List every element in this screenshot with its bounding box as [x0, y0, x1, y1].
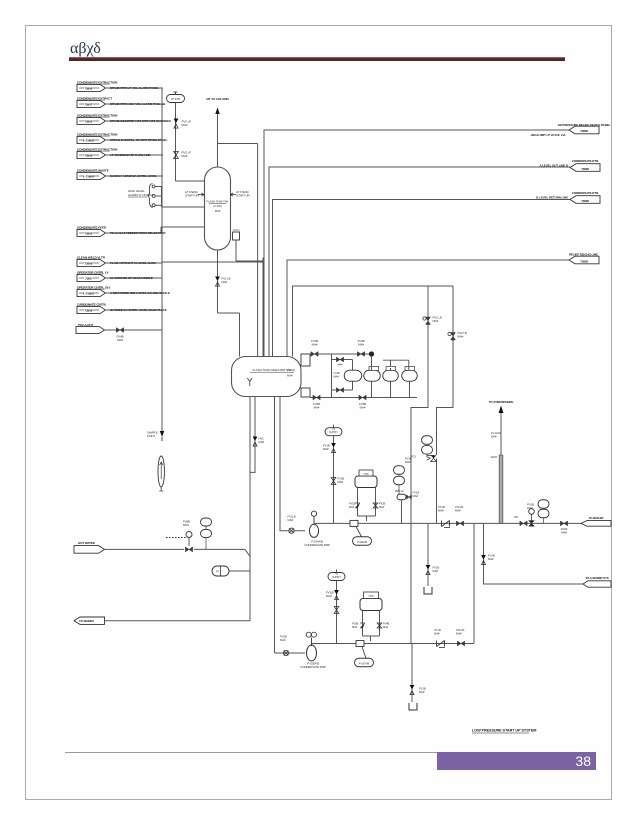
funnel drain lower [409, 703, 417, 710]
valve pump2 suction [283, 650, 288, 655]
svg-text:FV2B: FV2B [379, 501, 385, 505]
valve PV3LP [174, 152, 179, 156]
valve N2 upper 2 [331, 478, 336, 482]
svg-text:MT TO COLUMN: MT TO COLUMN [206, 97, 228, 101]
svg-text:MA#: MA# [338, 480, 344, 484]
valve FV2B [311, 352, 318, 357]
gate valve lower [457, 641, 464, 646]
svg-text:MA#: MA# [358, 342, 364, 346]
svg-text:TO BOILER: TO BOILER [589, 516, 605, 520]
svg-text:FLASH TANK TNK: FLASH TANK TNK [207, 200, 229, 204]
svg-text:HTR: HTR [369, 595, 374, 598]
svg-text:L-73808: L-73808 [83, 174, 94, 178]
trap pot T1 [364, 370, 381, 381]
wire from flag L2-1 [106, 262, 163, 264]
valve PV2LP [174, 119, 179, 129]
svg-text:OPERATOR CNTRL SLV: OPERATOR CNTRL SLV [77, 285, 111, 289]
wire pump2 suction [275, 652, 306, 654]
svg-text:MA#: MA# [438, 509, 444, 513]
gate valve header2 [520, 521, 527, 526]
wire hot water jog [245, 549, 250, 557]
valve vessel drain [215, 277, 220, 287]
svg-text:VENT: VENT [490, 455, 497, 459]
svg-text:MA#: MA# [287, 373, 293, 377]
wire manifold bottom rail [310, 397, 417, 399]
drum top nozzle wires [239, 356, 241, 358]
drum T-102 [232, 357, 302, 397]
svg-text:P-106A/B: P-106A/B [357, 540, 368, 544]
wire pump2 suction drop [274, 397, 276, 654]
svg-text:A DELIVERED RICH LEVEL GAUGE N: A DELIVERED RICH LEVEL GAUGE NOZZLE [110, 291, 170, 295]
wire from flag L1-2 [106, 103, 164, 105]
wire from flag L1-5 [106, 154, 164, 156]
wire header A [264, 130, 569, 357]
wire lower vessel nozzle [161, 226, 205, 228]
ball plug [369, 351, 374, 356]
drum right nozzle lower [301, 388, 310, 397]
wire header E [293, 286, 454, 357]
svg-text:LP CONDENSATE FLOW LINE: LP CONDENSATE FLOW LINE [110, 153, 151, 157]
inlet flag L1-6 [77, 172, 106, 179]
svg-text:MA#: MA# [182, 123, 188, 127]
svg-text:MA#: MA# [326, 594, 332, 598]
svg-text:MA#: MA# [456, 632, 462, 636]
svg-text:MA#: MA# [352, 625, 358, 629]
drip leg arrow [160, 431, 164, 437]
svg-text:(V-101): (V-101) [213, 204, 222, 208]
svg-text:7380: 7380 [85, 276, 92, 280]
pilot tee capsule [397, 494, 406, 500]
wire T3 legs [408, 360, 410, 370]
svg-text:MA#: MA# [458, 335, 464, 339]
svg-text:CLEAN WELD VLTR: CLEAN WELD VLTR [77, 255, 106, 259]
wire E-102 join [363, 635, 380, 637]
svg-text:CONDENSATE FEED: CONDENSATE FEED [77, 225, 107, 229]
valve PRV-B [451, 333, 456, 341]
bypass lower wire [332, 389, 353, 391]
svg-text:MA#: MA# [280, 638, 286, 642]
valve E-102 right [377, 623, 382, 628]
PCV station stack [422, 436, 433, 445]
valve FV4B [116, 328, 123, 333]
svg-text:HOT WATER: HOT WATER [78, 541, 96, 545]
svg-text:CONDENSATE EXTRACTION: CONDENSATE EXTRACTION [77, 132, 118, 136]
wire blowdown branch [484, 523, 584, 584]
svg-text:MA#: MA# [323, 447, 329, 451]
svg-text:MA#: MA# [259, 440, 265, 444]
svg-text:SUPPLY: SUPPLY [332, 576, 341, 579]
wire outlet jog [218, 312, 240, 314]
bypass branch wire [331, 354, 333, 398]
wire from flag L1-6 [106, 175, 164, 177]
svg-text:LP STEAM: LP STEAM [236, 190, 249, 194]
svg-text:MA#: MA# [413, 494, 419, 498]
svg-text:MA#: MA# [379, 505, 385, 509]
svg-text:CARBONATE CNTRL: CARBONATE CNTRL [77, 302, 107, 306]
control valve PCV [427, 454, 434, 455]
wire from flag L1-1 [106, 87, 164, 89]
svg-text:MA#: MA# [433, 319, 439, 323]
svg-text:FLASH TANK DIGESTER TNK: FLASH TANK DIGESTER TNK [253, 368, 292, 372]
svg-text:73808: 73808 [84, 119, 92, 123]
inlet flag L1-3 [77, 117, 106, 124]
svg-text:MA#: MA# [183, 523, 189, 527]
pump label capsule lower [362, 647, 366, 659]
PRV pilot stack [394, 466, 405, 475]
svg-text:MA#: MA# [488, 557, 494, 561]
outlet flag R3 [570, 196, 600, 204]
svg-text:MA#: MA# [383, 625, 389, 629]
wire riser branch down [473, 523, 475, 643]
control valve header [529, 521, 535, 527]
wire drop to drum n1 [257, 144, 259, 357]
svg-text:73808: 73808 [581, 167, 589, 171]
valve FV3B [357, 352, 364, 357]
gate valve header3 [560, 521, 567, 526]
svg-text:73808: 73808 [84, 308, 92, 312]
valve drum drain [253, 437, 258, 447]
wire E-101 join [358, 515, 376, 517]
wire pump1 suction drop [280, 397, 305, 531]
wire drum drain main [249, 397, 251, 621]
svg-text:MA#: MA# [405, 460, 411, 464]
svg-text:STAND PIPE LP VOL ALARM PANEL: STAND PIPE LP VOL ALARM PANEL [110, 86, 159, 90]
svg-text:CONDENSATE PMP: CONDENSATE PMP [300, 665, 326, 669]
outlet flag R1 [569, 126, 599, 134]
bypass upper wire [332, 359, 353, 361]
wire E-101 right leg [375, 488, 377, 517]
wire header D [287, 260, 569, 357]
drain branch lower [411, 644, 413, 703]
outlet flag R6 [583, 581, 611, 587]
brace bracket [148, 184, 153, 208]
exchanger E-101 [355, 476, 377, 488]
brace tap wire [152, 185, 155, 188]
svg-text:B LEVEL RETURN LINE: B LEVEL RETURN LINE [536, 196, 568, 200]
svg-text:STEAM BACKFILL OF WTR PIPING P: STEAM BACKFILL OF WTR PIPING PANEL [110, 138, 168, 142]
svg-text:MA#: MA# [215, 209, 221, 213]
wire N2 lower drop [336, 581, 338, 644]
svg-text:FV1B: FV1B [349, 501, 355, 505]
wire from flag L2-2 [106, 277, 163, 279]
wire riser branch [218, 143, 258, 145]
valve N2 upper 1 [331, 443, 336, 453]
orifice box upper [350, 520, 358, 526]
wire pot stub [229, 570, 250, 572]
svg-text:CONDENSATE RTN: CONDENSATE RTN [572, 159, 598, 163]
trap pot T2 [383, 370, 399, 381]
wire pilot drop [401, 500, 403, 524]
svg-text:MA#: MA# [182, 154, 188, 158]
wire to bottom left flag [105, 620, 251, 622]
wire brace drop [161, 187, 163, 208]
wire manifold top rail [310, 353, 372, 355]
gauge stack header [538, 500, 549, 509]
svg-text:L-73808: L-73808 [83, 291, 94, 295]
svg-text:73907: 73907 [84, 102, 92, 106]
svg-text:73808: 73808 [84, 153, 92, 157]
svg-text:FV1B: FV1B [334, 371, 340, 375]
svg-text:OPERATOR CNTRL LV: OPERATOR CNTRL LV [77, 270, 109, 274]
svg-text:LP STM: LP STM [171, 97, 180, 101]
wire to vessel nozzle [162, 206, 205, 208]
gate valve header1 [456, 521, 463, 526]
inlet flag L1-5 [77, 151, 106, 158]
svg-text:CONDENSATE EXTRACTION: CONDENSATE EXTRACTION [77, 80, 118, 84]
wire E-101 left leg [357, 488, 359, 517]
inlet flag PSV relief [76, 326, 105, 333]
svg-text:MA#: MA# [527, 506, 533, 510]
valve drain lower [410, 685, 415, 695]
svg-text:LT/LG: LT/LG [233, 228, 240, 232]
drum right nozzle upper [301, 354, 310, 366]
svg-text:L-73808: L-73808 [83, 138, 94, 142]
valve E-102 left [360, 623, 365, 628]
inlet flag L1-2 [77, 100, 106, 107]
valve E-101 left [355, 503, 360, 508]
svg-text:SLOWLY AMMONIA CNTRL LEVEL: SLOWLY AMMONIA CNTRL LEVEL [110, 174, 157, 178]
valve FV4B bottom [313, 395, 320, 400]
svg-text:(START UP): (START UP) [236, 194, 250, 198]
valve PRV-A [426, 317, 431, 325]
valve E-101 right [373, 503, 378, 508]
svg-text:LOW PRESSURE START UP SYSTEM: LOW PRESSURE START UP SYSTEM [472, 729, 536, 733]
gauge stack hot water [201, 518, 212, 526]
inlet flag L2-2 [77, 274, 106, 281]
inlet flag L1-1 [77, 84, 106, 91]
vessel bottom outlet [217, 250, 219, 313]
level sight glass [158, 456, 164, 487]
wire T1 legs [371, 357, 373, 371]
wire from flag L1-4 [106, 139, 164, 141]
svg-text:AB PRESSURE RELIEF DEVICE PANE: AB PRESSURE RELIEF DEVICE PANEL [558, 123, 611, 127]
wire steam to vessel [176, 180, 205, 182]
svg-text:FLASH WTR BUT HI LEVEL ALRM: FLASH WTR BUT HI LEVEL ALRM [110, 261, 156, 265]
svg-text:HTR: HTR [364, 473, 369, 476]
wire PCV drop [436, 458, 438, 462]
svg-text:RD: RD [514, 515, 518, 519]
svg-text:TO SEWER: TO SEWER [79, 619, 95, 623]
inlet flag L2-3 [77, 289, 106, 296]
bus wire left header [161, 88, 163, 433]
brace tap wire [152, 195, 155, 198]
valve FV6B bottom [359, 395, 366, 400]
inlet flag L2-1 [77, 259, 106, 266]
wire drop PRV-B [437, 286, 454, 455]
svg-text:CONDENSATE EXTRACTION: CONDENSATE EXTRACTION [77, 147, 118, 151]
svg-text:MA#: MA# [117, 338, 123, 342]
svg-text:MA#: MA# [349, 505, 355, 509]
svg-text:FV4B: FV4B [383, 621, 389, 625]
wire from flag L2-3 [106, 292, 163, 294]
svg-text:PT: PT [216, 569, 220, 573]
svg-text:PCV: PCV [411, 454, 416, 458]
svg-text:SUPPLY: SUPPLY [329, 431, 338, 434]
svg-text:CONDENSATE EXTRACT: CONDENSATE EXTRACT [77, 96, 112, 100]
vessel V-101 flash tank [205, 167, 231, 250]
svg-text:MA#: MA# [337, 363, 343, 367]
N2 capsule upper [333, 425, 335, 428]
bypass valve upper [336, 357, 343, 362]
svg-text:MA#: MA# [561, 531, 567, 535]
svg-text:RELIEF DISCHG LINE: RELIEF DISCHG LINE [569, 252, 598, 256]
pump label capsule upper [356, 527, 362, 538]
wire header B [269, 167, 570, 357]
orifice box lower [356, 641, 364, 647]
inlet flag hot water [74, 546, 105, 554]
outlet flag R2 [570, 164, 600, 172]
vessel side nozzle [233, 232, 240, 240]
wire drum drain valve leg [250, 397, 255, 473]
svg-text:SL WORKED ST CONF NOZZLE: SL WORKED ST CONF NOZZLE [110, 276, 153, 280]
wire N2 upper drop [333, 436, 335, 524]
svg-text:TO A SEWER SYS: TO A SEWER SYS [585, 576, 608, 580]
svg-text:MA#: MA# [288, 518, 294, 522]
svg-text:TO ATMOSPHERE: TO ATMOSPHERE [489, 400, 514, 404]
svg-text:MA#: MA# [314, 405, 320, 409]
inlet flag L-233 [77, 229, 106, 236]
valve blowdown [481, 555, 486, 565]
wire header C [273, 200, 571, 357]
svg-text:(T-102): (T-102) [287, 368, 295, 372]
svg-text:MA#: MA# [360, 405, 366, 409]
wire drop PRV-A [411, 286, 428, 644]
svg-text:73808: 73808 [580, 259, 588, 263]
svg-text:MA#: MA# [455, 509, 461, 513]
trap pot T0 [344, 370, 362, 381]
inlet flag L2-4 [77, 306, 106, 313]
wire group2 extension to node [162, 261, 263, 263]
pilot valve [407, 495, 412, 500]
vent stack riser [500, 412, 502, 523]
vortex breaker [247, 378, 252, 386]
wire below sight glass [160, 487, 162, 491]
svg-text:TO LN GAS FEEDER FROM RELOCATO: TO LN GAS FEEDER FROM RELOCATOR [110, 231, 166, 235]
wire from flag L2-4 [106, 309, 163, 311]
svg-text:PSV A-OUT: PSV A-OUT [78, 323, 94, 327]
check valve header [442, 521, 450, 527]
svg-text:73808: 73808 [84, 261, 92, 265]
wire node drop to drum n2 [262, 258, 264, 357]
svg-text:CONDENSATE WASTE: CONDENSATE WASTE [77, 168, 109, 172]
wire steam drop [175, 103, 177, 182]
svg-text:(START UP): (START UP) [185, 194, 199, 198]
svg-text:MA#: MA# [434, 632, 440, 636]
svg-text:73808: 73808 [84, 231, 92, 235]
svg-text:OUTSIDE GA CNTRL LEVEL BACK PL: OUTSIDE GA CNTRL LEVEL BACK PLATE [110, 308, 167, 312]
brace tap wire [152, 204, 155, 207]
vent riser to MT [217, 113, 219, 167]
svg-text:MA#: MA# [433, 569, 439, 573]
bypass valve lower [336, 388, 343, 393]
svg-text:CONDENSATE RTN: CONDENSATE RTN [572, 191, 598, 195]
valve drain header [426, 565, 431, 575]
inlet flag L1-4 [77, 136, 106, 143]
svg-text:A LEVEL OUT LINE B: A LEVEL OUT LINE B [539, 164, 568, 168]
svg-text:PRV etc: PRV etc [395, 489, 405, 493]
outlet flag R4 [569, 256, 599, 264]
wire main header [314, 522, 581, 524]
trap pot T3 [402, 370, 418, 381]
drain branch header [427, 523, 429, 586]
svg-text:73808: 73808 [580, 129, 588, 133]
svg-text:STAND PIPE HIGH VOL ALARM PANL: STAND PIPE HIGH VOL ALARM PANL AB [110, 102, 166, 106]
svg-text:HIGH LIMIT LP HI VOL LVL: HIGH LIMIT LP HI VOL LVL [531, 133, 567, 137]
bypass leg wire [352, 360, 354, 391]
funnel drain header [424, 587, 432, 594]
svg-text:MA#: MA# [334, 375, 340, 379]
svg-text:73808: 73808 [581, 199, 589, 203]
control valve FCV hot water [185, 547, 192, 552]
svg-text:POINT: POINT [147, 434, 155, 438]
svg-text:73808: 73808 [84, 86, 92, 90]
svg-text:MA#: MA# [491, 435, 497, 439]
wire from flag L1-3 [106, 120, 164, 122]
svg-text:MA#: MA# [222, 280, 228, 284]
svg-text:MA#: MA# [419, 690, 425, 694]
exchanger E-102 [360, 599, 382, 611]
wire nozzle drop [235, 240, 237, 261]
wire relief line [105, 329, 163, 331]
drain pot [212, 566, 229, 576]
svg-text:LP STEAM: LP STEAM [185, 190, 198, 194]
wire E-102 right leg [379, 611, 381, 637]
svg-text:CONDENSATE PMP: CONDENSATE PMP [304, 543, 330, 547]
valve N2 lower 1 [334, 590, 339, 600]
wire lower header [312, 643, 475, 645]
svg-text:MA#: MA# [312, 342, 318, 346]
valve N2 lower 2 [334, 607, 339, 611]
check valve lower [437, 641, 445, 647]
wire E-102 left leg [362, 611, 364, 637]
N2 capsule lower [336, 570, 338, 573]
svg-text:FV3B: FV3B [352, 621, 358, 625]
outlet flag bottom left [74, 617, 105, 624]
valve pump1 suction [289, 528, 294, 533]
outlet flag R5 to boiler [581, 521, 611, 527]
wire T2 legs [390, 368, 392, 370]
svg-text:CONDENSATE EXTRACTION: CONDENSATE EXTRACTION [77, 113, 118, 117]
svg-text:P-107A/B: P-107A/B [359, 662, 370, 666]
wire hot water [105, 548, 185, 550]
pump P-104 [309, 524, 318, 537]
svg-text:ALARM LT NOZZLE: ALARM LT NOZZLE [128, 193, 154, 197]
wire from flag L-233 [106, 232, 163, 234]
pump P-105 [307, 645, 317, 661]
steam inlet capsule [167, 95, 185, 103]
